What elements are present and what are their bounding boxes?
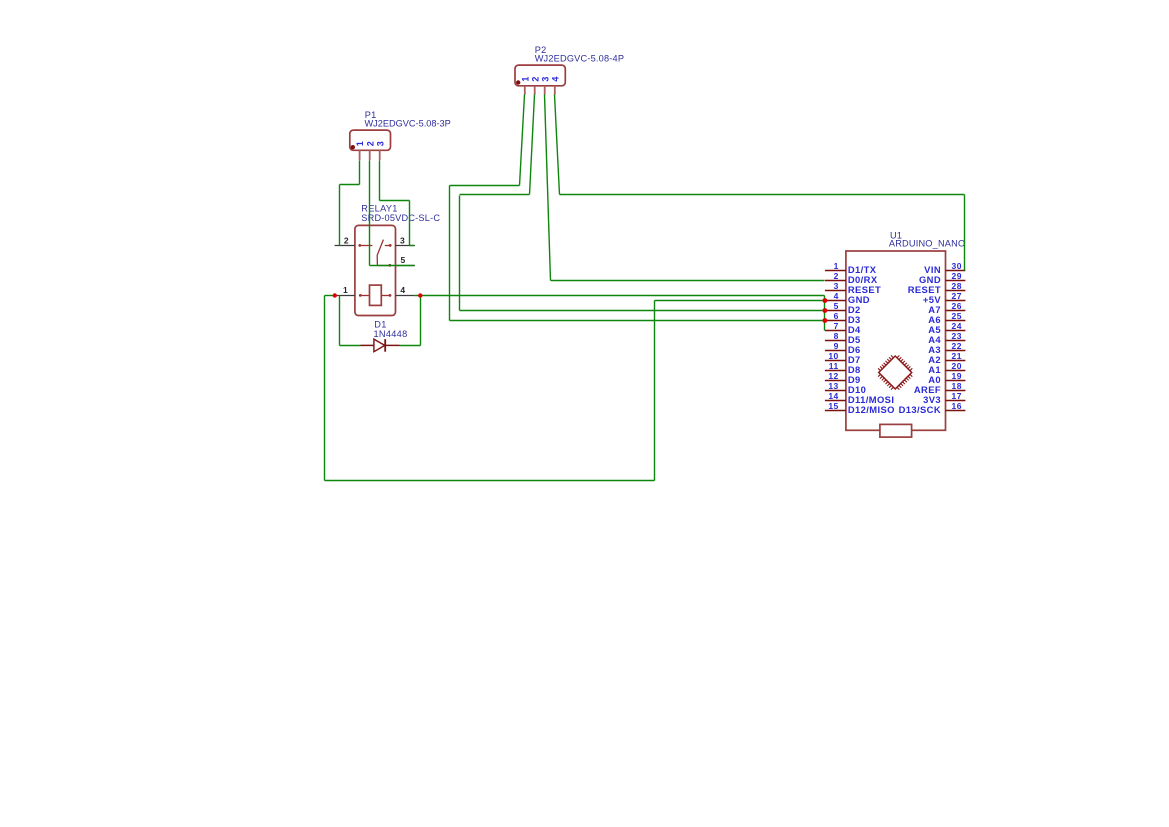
svg-text:3: 3 (400, 235, 405, 245)
U1 pin 29 line (946, 280, 966, 282)
U1 chip diamond glyph (878, 355, 912, 389)
U1 pin 6 line (825, 320, 846, 322)
wire P2.2 horizontal upper (460, 194, 530, 196)
wire D1 anode vertical (339, 296, 341, 346)
U1 pin 23 line (946, 340, 966, 342)
wire P2.4 to VIN horizontal (560, 194, 965, 196)
wire P1.2 to RELAY1.5 (370, 265, 415, 267)
wire GND loop right vertical (654, 301, 656, 481)
svg-text:1: 1 (520, 77, 530, 82)
svg-text:1: 1 (834, 261, 839, 271)
svg-text:WJ2EDGVC-5.08-4P: WJ2EDGVC-5.08-4P (535, 54, 625, 64)
svg-text:5: 5 (834, 301, 839, 311)
wire P2.1 horizontal upper (450, 185, 520, 187)
U1 pin 17 line (946, 400, 966, 402)
RELAY1 pin 5 line (396, 265, 415, 267)
relay RELAY1 body (355, 225, 396, 315)
wire P2.4 to VIN vertical (964, 195, 966, 271)
RELAY1 contact line right (385, 245, 390, 247)
U1 pin 27 line (946, 300, 966, 302)
svg-text:4: 4 (400, 285, 405, 295)
RELAY1 contact line left (360, 245, 373, 247)
wire P2.3 drop (545, 95, 551, 281)
svg-text:2: 2 (530, 77, 540, 82)
wire P1.3 vertical (409, 201, 411, 246)
svg-text:3: 3 (540, 77, 550, 82)
svg-text:10: 10 (828, 351, 838, 361)
svg-text:2: 2 (834, 271, 839, 281)
U1 pin 11 line (825, 370, 846, 372)
svg-text:3: 3 (375, 141, 385, 146)
U1 pin 18 line (946, 390, 966, 392)
svg-text:12: 12 (828, 371, 838, 381)
svg-text:27: 27 (952, 291, 962, 301)
svg-text:18: 18 (952, 381, 962, 391)
RELAY1 contact dot pin2 (358, 244, 361, 247)
junction relay pin1 (333, 293, 337, 297)
wire P1.1 drop (359, 161, 361, 185)
U1 pin 5 line (825, 310, 846, 312)
wire GND loop left vertical (324, 296, 326, 481)
RELAY1 pin 1 line (335, 295, 355, 297)
wire GND loop to U1 GND (655, 300, 825, 302)
svg-text:11: 11 (829, 361, 839, 371)
svg-text:26: 26 (952, 301, 962, 311)
U1 pin 4 line (825, 300, 846, 302)
svg-text:3: 3 (834, 281, 839, 291)
svg-text:2: 2 (344, 235, 349, 245)
svg-text:23: 23 (952, 331, 962, 341)
U1 pin 30 line (946, 270, 966, 272)
svg-text:19: 19 (952, 371, 962, 381)
wire P2.4 drop (555, 95, 560, 195)
wire P2.1 vertical (449, 186, 451, 321)
svg-text:24: 24 (952, 321, 962, 331)
RELAY1 contact dot pin5 (388, 264, 391, 267)
op-amp U1 ARDUINO_NANO body (846, 251, 946, 430)
svg-text:ARDUINO_NANO: ARDUINO_NANO (889, 239, 965, 249)
svg-text:16: 16 (952, 401, 962, 411)
U1 pin 28 line (946, 290, 966, 292)
svg-text:13: 13 (828, 381, 838, 391)
U1 pin 21 line (946, 360, 966, 362)
wire P2.2 to U1 D2 (460, 310, 825, 312)
U1 pin 25 line (946, 320, 966, 322)
wire P2.3 to U1 D0/RX (551, 280, 825, 282)
wire D1 cathode horizontal (400, 345, 421, 347)
wire P1.3 horizontal (380, 200, 410, 202)
svg-text:2: 2 (365, 141, 375, 146)
svg-text:30: 30 (952, 261, 962, 271)
U1 bottom connector rectangle (880, 424, 912, 437)
RELAY1 pin 4 line (396, 295, 415, 297)
svg-text:28: 28 (952, 281, 962, 291)
svg-text:21: 21 (952, 351, 962, 361)
svg-text:D13/SCK: D13/SCK (899, 404, 941, 415)
svg-text:9: 9 (834, 341, 839, 351)
wire P1.2 drop (369, 161, 371, 266)
wire D1 cathode vertical (420, 296, 422, 346)
svg-text:6: 6 (834, 311, 839, 321)
diode D1 (360, 339, 399, 352)
wire D1 anode horizontal (340, 345, 361, 347)
svg-text:8: 8 (834, 331, 839, 341)
svg-text:14: 14 (828, 391, 838, 401)
RELAY1 pin 2 line (335, 245, 355, 247)
connector P2 (515, 65, 565, 95)
svg-text:7: 7 (834, 321, 839, 331)
svg-text:15: 15 (828, 401, 838, 411)
svg-text:1: 1 (343, 285, 348, 295)
U1 pin 16 line (946, 410, 966, 412)
svg-text:4: 4 (550, 77, 560, 82)
svg-text:1: 1 (355, 141, 365, 146)
svg-text:1N4448: 1N4448 (374, 329, 408, 339)
P2 pin-1 origin dot (516, 80, 520, 84)
connector P1 (350, 130, 391, 160)
wire P1.1 horizontal (340, 184, 360, 186)
U1 pin 3 line (825, 290, 846, 292)
junction U1 GND (823, 298, 828, 303)
U1 pin 26 line (946, 310, 966, 312)
wire P2.2 vertical (459, 196, 461, 311)
U1 pin 9 line (825, 350, 846, 352)
U1 pin 19 line (946, 380, 966, 382)
wire RELAY1.1 stub left (325, 295, 335, 297)
svg-text:4: 4 (834, 291, 839, 301)
U1 pin 15 line (825, 410, 846, 412)
svg-text:D12/MISO: D12/MISO (848, 404, 895, 415)
RELAY1 coil lead left (360, 295, 369, 297)
svg-text:5: 5 (401, 255, 406, 265)
junction relay pin4 (418, 293, 422, 297)
RELAY1 coil dot pin4 (389, 294, 392, 297)
RELAY1 contact dot pin3 (389, 244, 392, 247)
U1 pin 13 line (825, 390, 846, 392)
RELAY1 coil lead right (381, 295, 390, 297)
junction U1 D2 (823, 308, 828, 313)
U1 pin 14 line (825, 400, 846, 402)
U1 pin 2 line (825, 280, 846, 282)
wire P2.1 to U1 D3 (450, 320, 825, 322)
svg-text:29: 29 (952, 271, 962, 281)
wire P2.1 drop (520, 95, 525, 186)
junction U1 D3 (823, 318, 828, 323)
wire P1.1 to RELAY1.2 (339, 185, 341, 246)
wire RELAY1.4 to U1 bus (415, 295, 825, 297)
svg-text:22: 22 (952, 341, 962, 351)
U1 pin 7 line (825, 330, 846, 332)
RELAY1 pin 3 line (396, 245, 415, 247)
RELAY1 coil rectangle (370, 285, 382, 305)
svg-text:WJ2EDGVC-5.08-3P: WJ2EDGVC-5.08-3P (365, 119, 451, 129)
RELAY1 coil dot pin1 (359, 294, 362, 297)
svg-text:SRD-05VDC-SL-C: SRD-05VDC-SL-C (361, 213, 440, 223)
wire GND loop bottom (325, 480, 655, 482)
svg-text:17: 17 (952, 391, 962, 401)
U1 pin 8 line (825, 340, 846, 342)
svg-text:25: 25 (952, 311, 962, 321)
U1 pin 12 line (825, 380, 846, 382)
U1 pin 22 line (946, 350, 966, 352)
U1 pin 1 line (825, 270, 846, 272)
wire P1.3 to RELAY1.3 (410, 245, 415, 247)
RELAY1 switch blade (377, 240, 383, 266)
U1 pin 10 line (825, 360, 846, 362)
wire P2.2 drop (530, 95, 535, 195)
U1 pin 20 line (946, 370, 966, 372)
svg-text:RELAY1: RELAY1 (361, 204, 397, 214)
RELAY1 pin5 inner line (377, 265, 389, 267)
svg-text:20: 20 (952, 361, 962, 371)
P1 pin-1 origin dot (351, 145, 355, 149)
wire P1.3 drop (379, 161, 381, 201)
wire U1 pins 4-7 vertical (824, 296, 826, 331)
U1 pin 24 line (946, 330, 966, 332)
